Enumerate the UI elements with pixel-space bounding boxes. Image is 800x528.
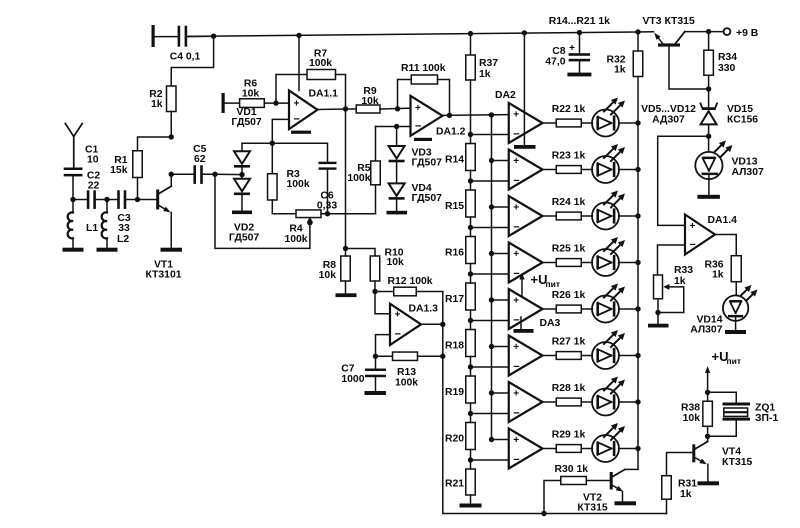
- ground under L1: [63, 248, 84, 252]
- node: cathode rail row 1: [635, 120, 640, 125]
- capacitor C7 1000: [375, 356, 377, 368]
- wire: node up to DA1.1 minus input: [272, 119, 289, 143]
- node: C1/L1/C2 junction: [70, 197, 75, 202]
- svg-text:АЛ307: АЛ307: [690, 325, 722, 336]
- svg-text:R17: R17: [445, 294, 464, 305]
- svg-text:1k: 1k: [479, 69, 491, 80]
- svg-text:1k: 1k: [151, 99, 163, 110]
- svg-text:R11 100k: R11 100k: [401, 63, 446, 74]
- resistor R29 1k: [556, 445, 581, 453]
- LED VD10 AD307: [592, 342, 619, 369]
- svg-text:C4 0,1: C4 0,1: [170, 52, 201, 63]
- transistor VT2 KT315: [610, 472, 613, 490]
- wire: C2 to L2 node: [96, 199, 107, 201]
- comparator 1 of DA2: [509, 103, 543, 143]
- wire: VD1 anode to R3/C6 node: [242, 142, 272, 144]
- svg-text:R34: R34: [718, 52, 737, 63]
- resistor R23 1k: [556, 166, 581, 174]
- wire: comparator 5 output: [543, 308, 557, 310]
- ground under VD2: [232, 211, 252, 215]
- op-amp DA1.2: [411, 96, 443, 136]
- node: DA1.1 inverting input net: [270, 141, 275, 146]
- svg-text:КТ3101: КТ3101: [145, 270, 181, 281]
- node: R8/R10 branch from DA1.1 output line: [343, 246, 348, 251]
- resistor R8 10k: [341, 256, 351, 281]
- resistor R5 100k: [371, 161, 381, 185]
- svg-text:1000: 1000: [341, 374, 364, 385]
- svg-text:+: +: [513, 342, 519, 353]
- node: DA1.1 output junction: [343, 106, 348, 111]
- svg-text:100k: 100k: [287, 179, 310, 190]
- wire: R5 top lead: [375, 127, 377, 162]
- op-amp DA1.1: [289, 91, 318, 130]
- wire: plus node up to R7 left: [276, 75, 307, 104]
- ground under VT4 emitter: [698, 481, 720, 485]
- capacitor C3 33: [117, 190, 120, 209]
- svg-text:R15: R15: [445, 201, 464, 212]
- comparator 2 of DA2: [509, 150, 543, 190]
- svg-text:пит: пит: [546, 279, 561, 289]
- wire: R13 right to output vertical: [418, 355, 443, 357]
- svg-text:10k: 10k: [387, 257, 405, 268]
- ground under C7: [365, 391, 387, 395]
- svg-text:R27 1k: R27 1k: [552, 337, 586, 348]
- svg-text:R14...R21 1k: R14...R21 1k: [549, 16, 610, 27]
- wire: R5 bottom lead: [375, 185, 377, 214]
- node: plus chain tap 5: [489, 297, 494, 302]
- wire: C5 node to VD1/VD2 junction: [215, 173, 242, 175]
- node: VD1-VD2 midpoint: [239, 172, 244, 177]
- wire: R2 bottom to collector node: [170, 112, 172, 138]
- wire: long vertical from DA1.1 output down to R8/R10: [345, 109, 347, 249]
- svg-text:R31: R31: [678, 479, 697, 490]
- op-amp DA1.3: [390, 304, 421, 345]
- resistor R12 100k: [375, 291, 394, 293]
- node: DA1.1 power on rail: [296, 33, 301, 38]
- wire: comparator 8 output: [543, 448, 557, 450]
- wire: DA1.3 output: [421, 323, 443, 325]
- wire: R6 to DA1.1 plus input: [264, 102, 289, 104]
- node: plus chain tap 4: [489, 251, 494, 256]
- wire: comparator 7 output: [543, 401, 557, 403]
- resistor R14 1k: [466, 144, 476, 171]
- wire: R22 to LED: [581, 122, 592, 124]
- wire: L2 to ground: [106, 238, 108, 248]
- comparator 8 of DA3: [509, 429, 543, 469]
- capacitor C1 10: [64, 168, 83, 171]
- svg-text:47,0: 47,0: [545, 57, 565, 68]
- svg-text:+9 В: +9 В: [736, 28, 759, 39]
- resistor R30 1k: [561, 477, 587, 485]
- node: DA1.3 output junction: [440, 322, 445, 327]
- wire: node to C2: [73, 199, 87, 201]
- node: divider tap 7: [468, 411, 473, 416]
- node: cathode rail row 7: [635, 399, 640, 404]
- svg-text:L1: L1: [86, 223, 98, 234]
- wire: comparator 2 output: [543, 169, 557, 171]
- wire C4 to rail: [187, 35, 213, 37]
- wire: R27 to LED: [581, 355, 592, 357]
- node: VD3 top junction: [394, 124, 399, 129]
- node: R11 feedback on output: [447, 113, 452, 118]
- comparator 5 of DA3: [509, 289, 543, 329]
- svg-text:ZQ1: ZQ1: [755, 403, 775, 414]
- svg-text:R38: R38: [681, 403, 700, 414]
- comparator 4 of DA2: [509, 243, 543, 283]
- wire: comparator plus input chain: [491, 115, 493, 440]
- wire: R10 bottom to DA1.3 plus node: [374, 281, 376, 292]
- node: branch to comparator plus chain: [489, 112, 494, 117]
- svg-text:R25 1k: R25 1k: [552, 244, 586, 255]
- wire: C6 bottom to R4-R5 wire: [327, 170, 329, 214]
- ground under VD4: [387, 211, 408, 215]
- svg-text:R37: R37: [479, 58, 498, 69]
- svg-text:+: +: [395, 309, 401, 320]
- wire: tap 1 to comparator 1 minus input: [471, 134, 509, 136]
- diode VD2 GD507: [241, 175, 243, 179]
- svg-text:КТ315: КТ315: [722, 457, 753, 468]
- svg-text:+: +: [513, 156, 519, 167]
- svg-text:−: −: [513, 315, 519, 327]
- resistor R22 1k: [556, 119, 581, 127]
- svg-text:100k: 100k: [284, 234, 307, 245]
- svg-text:100k: 100k: [309, 58, 332, 69]
- wire: DA1.3 output down and along bottom to R31: [443, 324, 667, 513]
- resistor R16 1k: [466, 237, 476, 264]
- svg-text:R28 1k: R28 1k: [552, 383, 586, 394]
- node: plus chain tap 2: [489, 158, 494, 163]
- node: divider tap 6: [468, 364, 473, 369]
- op-amp DA1.4: [685, 215, 715, 255]
- node: C2/L2/C3 junction: [104, 197, 109, 202]
- svg-text:КТ315: КТ315: [577, 503, 608, 514]
- resistor R25 1k: [556, 259, 581, 267]
- wire: DA1.1 output: [318, 108, 346, 111]
- svg-text:−: −: [513, 454, 519, 466]
- wire: LED VD12 to cathode rail: [619, 448, 638, 450]
- resistor R26 1k: [556, 305, 581, 313]
- resistor R36 1k: [731, 256, 741, 282]
- node: R34 top on +9V: [706, 29, 711, 34]
- svg-text:33: 33: [118, 223, 130, 234]
- svg-text:DA2: DA2: [495, 90, 516, 101]
- node: divider tap 3: [468, 225, 473, 230]
- svg-text:+: +: [569, 43, 575, 54]
- svg-text:10: 10: [87, 155, 99, 166]
- wire: DA1.4 output to R36: [715, 235, 736, 256]
- ground under L2: [97, 248, 118, 252]
- wire: plus tap to comparator 3: [492, 206, 509, 208]
- svg-text:+: +: [415, 103, 421, 114]
- node: plus chain tap 6: [489, 344, 494, 349]
- svg-text:C8: C8: [552, 46, 566, 57]
- wire: tap 5 to comparator 5 minus input: [471, 320, 509, 322]
- node: C8 on rail: [577, 30, 582, 35]
- svg-text:R20: R20: [445, 433, 464, 444]
- node: VT1 collector: [169, 172, 174, 177]
- inductor L2: [106, 200, 108, 213]
- power arrow +Upit of DA3: [521, 280, 523, 297]
- svg-text:−: −: [513, 175, 519, 187]
- node: VT4 collector junction: [705, 434, 710, 439]
- resistor R9 10k: [346, 108, 357, 110]
- node: divider tap 5: [468, 318, 473, 323]
- wire: LED VD8 to cathode rail: [619, 262, 638, 264]
- wire: LED VD10 to cathode rail: [619, 355, 638, 357]
- svg-text:DA1.1: DA1.1: [309, 89, 339, 100]
- wire: R9 to DA1.2 plus input: [380, 107, 411, 110]
- terminal bar at input of C4: [152, 25, 155, 47]
- wire: R31 bottom from bottom rail: [666, 499, 668, 513]
- node: cathode rail row 5: [635, 306, 640, 311]
- wire: top supply rail from C4 to VT3 emitter: [187, 32, 654, 37]
- wire: R11 left lead: [398, 80, 412, 109]
- wire: comparator 3 output: [543, 215, 557, 217]
- svg-text:КС156: КС156: [727, 115, 758, 126]
- node: cathode rail row 3: [635, 213, 640, 218]
- resistor R3 100k: [271, 143, 273, 174]
- node: C6 bottom junction: [325, 211, 330, 216]
- diode VD4 GD507: [389, 183, 405, 196]
- ground under R21: [460, 504, 482, 508]
- wiper of R33: [663, 284, 669, 290]
- wire: R23 to LED: [581, 169, 592, 171]
- wire: R8 to ground: [345, 281, 347, 293]
- wire: R24 to LED: [581, 215, 592, 217]
- resistor R27 1k: [556, 352, 581, 360]
- node: R30 branch on bottom wire: [541, 511, 546, 516]
- svg-text:пит: пит: [727, 356, 742, 366]
- power arrow +Upit bottom: [707, 373, 709, 392]
- ground under R33: [648, 324, 669, 328]
- resistor R1 15k: [133, 151, 143, 178]
- power pin of DA1.1 to rail: [298, 36, 300, 91]
- svg-text:R29 1k: R29 1k: [552, 430, 586, 441]
- wire: feedback loop from C5 node down to R4 wiper: [215, 174, 310, 248]
- wire: comparator 6 output: [543, 355, 557, 357]
- svg-text:330: 330: [718, 63, 736, 74]
- wire: rail down to R2 top: [171, 36, 213, 86]
- comparator 7 of DA3: [509, 382, 543, 422]
- svg-text:R23 1k: R23 1k: [552, 151, 586, 162]
- inductor L1: [72, 200, 74, 213]
- svg-text:DA1.4: DA1.4: [708, 215, 738, 226]
- svg-text:R30 1k: R30 1k: [555, 464, 589, 475]
- node: cathode rail row 6: [635, 353, 640, 358]
- diode VD1 GD507: [241, 143, 243, 151]
- wire: LED VD7 to cathode rail: [619, 215, 638, 217]
- wire: bar to R6: [225, 102, 240, 104]
- svg-text:1k: 1k: [614, 65, 626, 76]
- ground under VD14: [725, 330, 746, 334]
- ground under R8: [336, 293, 357, 297]
- piezo buzzer ZQ1 ZP-1: [708, 392, 737, 402]
- svg-text:−: −: [513, 129, 519, 141]
- svg-text:R24 1k: R24 1k: [552, 197, 586, 208]
- wire: DA1.2 output line to comparators: [443, 114, 509, 117]
- wire: collector to C5: [171, 173, 193, 175]
- svg-text:22: 22: [88, 180, 100, 191]
- node: R32 on rail: [635, 29, 640, 34]
- svg-text:VT4: VT4: [722, 446, 741, 457]
- node: divider tap 4: [468, 271, 473, 276]
- resistor R34 330: [704, 50, 714, 75]
- svg-text:R14: R14: [445, 154, 464, 165]
- bar terminal at R6 input: [222, 93, 225, 113]
- resistor R31 1k: [662, 476, 672, 500]
- resistor R13 100k: [376, 355, 393, 357]
- node: R10/R12/DA1.3 plus junction: [372, 289, 377, 294]
- wire: LED VD6 to cathode rail: [619, 169, 638, 171]
- svg-text:−: −: [395, 329, 401, 341]
- wire: node right to C6: [272, 143, 327, 162]
- svg-text:1k: 1k: [712, 270, 724, 281]
- wire: R37 bottom to divider: [470, 80, 472, 135]
- svg-text:ЗП-1: ЗП-1: [755, 413, 778, 424]
- svg-text:1k: 1k: [680, 489, 692, 500]
- svg-text:DA3: DA3: [540, 318, 561, 329]
- wire: C5 to detector node: [203, 173, 215, 175]
- resistor R21 1k: [466, 469, 476, 495]
- svg-text:DA1.2: DA1.2: [436, 127, 466, 138]
- wire: base lead: [138, 199, 157, 201]
- resistor R17 1k: [466, 283, 476, 310]
- wire: node to C3: [107, 199, 117, 201]
- node: cathode rail row 8: [635, 446, 640, 451]
- svg-text:+: +: [513, 110, 519, 121]
- resistor R6 10k: [240, 99, 265, 108]
- svg-text:15k: 15k: [110, 165, 128, 176]
- trimmer R4 100k: [296, 210, 321, 218]
- wire: R26 to LED: [581, 308, 592, 310]
- ground under VT1 emitter: [161, 248, 183, 252]
- capacitor C8 47,0 with ground: [579, 33, 581, 53]
- ground under VD13: [697, 195, 720, 199]
- svg-text:R16: R16: [445, 247, 464, 258]
- svg-text:62: 62: [194, 154, 206, 165]
- wire: cathode rail to VT2 collector: [625, 468, 638, 470]
- node: divider tap 8: [468, 457, 473, 462]
- wire: tap 2 to comparator 2 minus input: [471, 180, 509, 182]
- resistor R15 1k: [466, 190, 476, 217]
- wire: plus tap to comparator 2: [492, 160, 509, 162]
- node: VT3 base / R34 / VD15 junction: [706, 86, 711, 91]
- wire: tap 6 to comparator 6 minus input: [471, 366, 509, 368]
- svg-text:АЛ307: АЛ307: [732, 167, 764, 178]
- wire: tap 3 to comparator 3 minus input: [471, 227, 509, 229]
- svg-text:+: +: [513, 203, 519, 214]
- svg-text:R18: R18: [445, 340, 464, 351]
- node: plus chain tap 7: [489, 390, 494, 395]
- wire: junction to DA1.4 plus input: [658, 136, 709, 225]
- wire: DA1.3 minus input to R13: [376, 335, 391, 357]
- LED VD7 AD307: [592, 203, 619, 230]
- LED VD8 AD307: [592, 249, 619, 276]
- wire: plus tap to comparator 8: [492, 439, 509, 441]
- ground under VT2 emitter: [615, 501, 637, 505]
- resistor R32 1k: [637, 32, 639, 51]
- wire: LED VD9 to cathode rail: [619, 308, 638, 310]
- wire: comparator 1 output: [543, 122, 557, 124]
- node: cathode rail row 4: [635, 260, 640, 265]
- power pin of DA2 to rail and ground bar: [523, 33, 525, 146]
- svg-text:−: −: [513, 361, 519, 373]
- wire: LED VD5 to cathode rail: [619, 122, 638, 124]
- antenna WA1: [73, 136, 75, 168]
- wire: L1 to ground: [72, 238, 74, 248]
- wire: DA1.2 minus input to VD3/R5 node: [376, 126, 411, 128]
- svg-text:ГД507: ГД507: [231, 117, 262, 128]
- svg-text:L2: L2: [117, 234, 129, 245]
- wire: R25 to LED: [581, 262, 592, 264]
- wiper arrow of trimmer R4: [307, 217, 313, 223]
- node: base of VT1: [135, 197, 140, 202]
- ground bar under comparator 5 (DA3 power): [520, 317, 522, 329]
- wire: tap 4 to comparator 4 minus input: [471, 273, 509, 275]
- svg-text:+: +: [690, 221, 696, 232]
- wire: R31 top to VT4 base: [667, 453, 693, 476]
- node: R9/R11 junction: [395, 106, 400, 111]
- svg-text:DA1.3: DA1.3: [409, 303, 439, 314]
- node: rail junction to R2: [211, 34, 216, 39]
- resistor R20 1k: [466, 423, 476, 450]
- svg-text:10k: 10k: [242, 88, 260, 99]
- svg-text:ГД507: ГД507: [412, 193, 443, 204]
- trimmer R33 1k: [654, 275, 663, 299]
- resistor R38 10k: [703, 401, 713, 426]
- svg-text:100k: 100k: [347, 173, 370, 184]
- svg-text:−: −: [690, 239, 696, 251]
- comparator 6 of DA3: [509, 336, 543, 376]
- wire: R4 right to R5 bottom: [321, 213, 376, 215]
- wire: comparator 4 output: [543, 262, 557, 264]
- svg-text:+: +: [513, 389, 519, 400]
- ground bar under comparator 1 (DA2 power): [514, 145, 536, 149]
- LED VD9 AD307: [592, 296, 619, 323]
- svg-text:−: −: [415, 121, 421, 133]
- resistor R11 100k: [411, 75, 437, 84]
- node: VD15/VD13/DA1.4 junction: [706, 134, 711, 139]
- transistor VT4 KT315: [692, 444, 695, 462]
- transistor VT1 KT3101: [156, 190, 159, 210]
- comparator 3 of DA2: [509, 196, 543, 236]
- resistor R7 100k: [307, 70, 336, 80]
- wire: R3 bottom to R4: [272, 200, 296, 214]
- wire: R12 right to DA1.3 output: [416, 292, 443, 325]
- wire: junction to R1 top: [138, 137, 172, 151]
- svg-text:VT3 КТ315: VT3 КТ315: [643, 16, 695, 27]
- svg-text:ГД507: ГД507: [229, 232, 260, 243]
- svg-text:R12 100k: R12 100k: [388, 276, 433, 287]
- LED VD12 AD307: [592, 435, 619, 462]
- svg-text:100k: 100k: [395, 378, 418, 389]
- wire: rail right segment to +9V terminal: [685, 31, 724, 33]
- wire: C3 to VT1 base node: [126, 199, 137, 201]
- node: feedback junction on output line: [440, 354, 445, 359]
- ground bar under DA1.1: [291, 131, 311, 134]
- node: divider tap 1: [468, 132, 473, 137]
- wire: R33 bottom to ground: [657, 299, 659, 324]
- wire: R28 to LED: [581, 401, 592, 403]
- node: R1/R2 junction: [169, 134, 174, 139]
- wire: C1 to L1 node: [72, 176, 74, 199]
- LED VD11 AD307: [592, 389, 619, 416]
- wire: R1 bottom to base node: [137, 178, 139, 200]
- svg-text:−: −: [513, 408, 519, 420]
- wire: plus tap to comparator 7: [492, 392, 509, 394]
- svg-text:10k: 10k: [683, 413, 701, 424]
- capacitor C4 0,1: [178, 26, 181, 47]
